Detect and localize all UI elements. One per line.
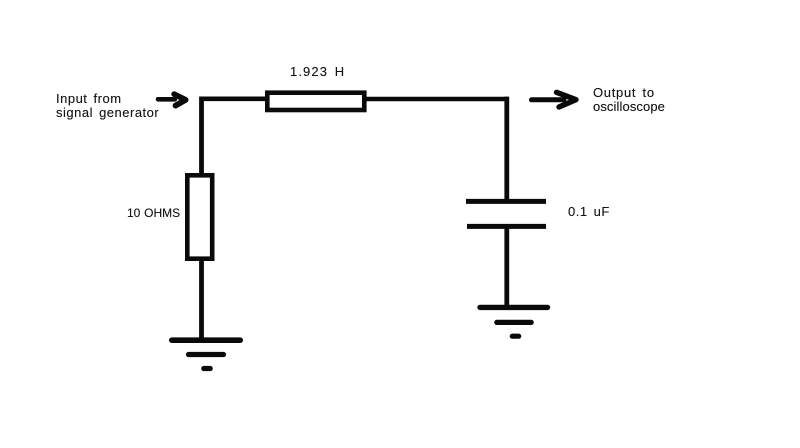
ground (left) <box>172 340 240 368</box>
capacitor C1 0.1 uF <box>466 201 546 226</box>
label: Output to oscilloscope <box>593 86 655 100</box>
inductor L1 box 1.923 H <box>267 93 364 110</box>
label: 1.923 H <box>290 65 345 79</box>
ground (right) <box>480 307 548 336</box>
input arrow <box>158 94 186 105</box>
wire: input node down to resistor <box>199 97 204 175</box>
label: 10 OHMS <box>127 206 180 220</box>
label: 0.1 uF <box>568 205 610 219</box>
wire: output node down to capacitor <box>504 97 509 201</box>
wire: resistor to ground <box>199 259 204 340</box>
wire: capacitor to ground <box>504 227 509 307</box>
label: oscilloscope (line 2) <box>593 100 665 114</box>
label: Input from signal generator <box>56 92 159 120</box>
wire: input node to inductor <box>200 97 268 102</box>
resistor R1 box 10 OHMS <box>187 175 212 258</box>
wire: inductor to output node <box>364 97 508 102</box>
output arrow <box>532 92 577 107</box>
